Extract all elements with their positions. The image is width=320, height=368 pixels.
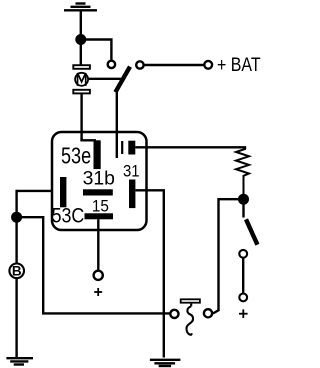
terminal B circle bbox=[9, 264, 24, 279]
switch S1 contact circle bbox=[136, 61, 143, 68]
svg-text:31: 31 bbox=[123, 163, 140, 181]
motor M1 bottom plate bbox=[73, 90, 90, 94]
terminal bar 31b bbox=[83, 189, 113, 195]
tick mark terminal I bbox=[121, 141, 123, 154]
motor M1 letter bbox=[78, 73, 86, 86]
junction dot A bbox=[75, 34, 86, 45]
wire junction to lamp bbox=[213, 199, 244, 313]
junction dot B rail bbox=[11, 212, 22, 223]
ground symbol bottom left bbox=[6, 358, 33, 364]
lamp body bbox=[181, 299, 200, 302]
svg-text:15: 15 bbox=[92, 198, 109, 216]
ground symbol bottom center bbox=[150, 360, 181, 366]
motor M1 body bbox=[75, 73, 88, 86]
wire 15 to plus terminal bbox=[97, 219, 99, 270]
wire 31 to lamp ground rail bbox=[135, 190, 163, 357]
wire junction to terminal circle bbox=[81, 40, 112, 61]
junction dot R1 out bbox=[238, 194, 249, 205]
wire S2 to plus terminal bbox=[242, 258, 244, 293]
wire motor to relay box bbox=[80, 94, 82, 141]
wire to terminal 53e bbox=[82, 138, 96, 140]
battery terminal circle bbox=[204, 61, 212, 69]
switch S1 lever bbox=[115, 67, 130, 93]
terminal bar 53C bbox=[60, 177, 66, 207]
resistor R1 bbox=[236, 148, 249, 195]
terminal bar 31 bbox=[129, 180, 135, 209]
terminal bar (top right) bbox=[128, 141, 135, 155]
terminal bar 53e bbox=[94, 140, 101, 169]
label + (right) bbox=[239, 309, 248, 318]
svg-text:B: B bbox=[12, 264, 22, 279]
motor M1 top plate bbox=[73, 65, 90, 69]
wire motor to switch S1 bbox=[88, 78, 121, 80]
wire terminal to resistor R1 bbox=[135, 147, 245, 149]
ground symbol top bbox=[64, 4, 97, 11]
svg-text:+ BAT: + BAT bbox=[217, 54, 261, 76]
wire B to ground bbox=[15, 278, 17, 358]
lamp terminal circle right bbox=[204, 309, 212, 317]
lamp terminal circle left bbox=[170, 310, 178, 318]
svg-text:53C: 53C bbox=[52, 204, 85, 228]
terminal circle (to switch feed) bbox=[108, 61, 115, 68]
terminal bar 15 bbox=[85, 213, 114, 219]
relay box outline bbox=[52, 132, 147, 230]
switch S2 lever bbox=[246, 219, 257, 244]
label + (15 output) bbox=[94, 288, 102, 296]
lamp filament stem bbox=[190, 304, 192, 307]
wire junction to lamp feed bbox=[17, 217, 170, 313]
wire 53C to node B rail bbox=[17, 190, 53, 192]
wire node B rail vertical bbox=[15, 190, 17, 263]
terminal circle 15 output bbox=[94, 271, 103, 280]
wire to battery terminal bbox=[144, 64, 204, 66]
wire switch S1 to relay box bbox=[116, 91, 118, 158]
svg-text:31b: 31b bbox=[83, 167, 115, 189]
svg-text:53e: 53e bbox=[61, 143, 91, 169]
plus terminal circle right bbox=[239, 294, 247, 302]
wire ground to junction bbox=[80, 10, 82, 64]
wire junction to switch S2 bbox=[242, 199, 244, 217]
lamp filament squiggle bbox=[186, 306, 193, 334]
switch S2 contact circle bbox=[239, 250, 247, 258]
